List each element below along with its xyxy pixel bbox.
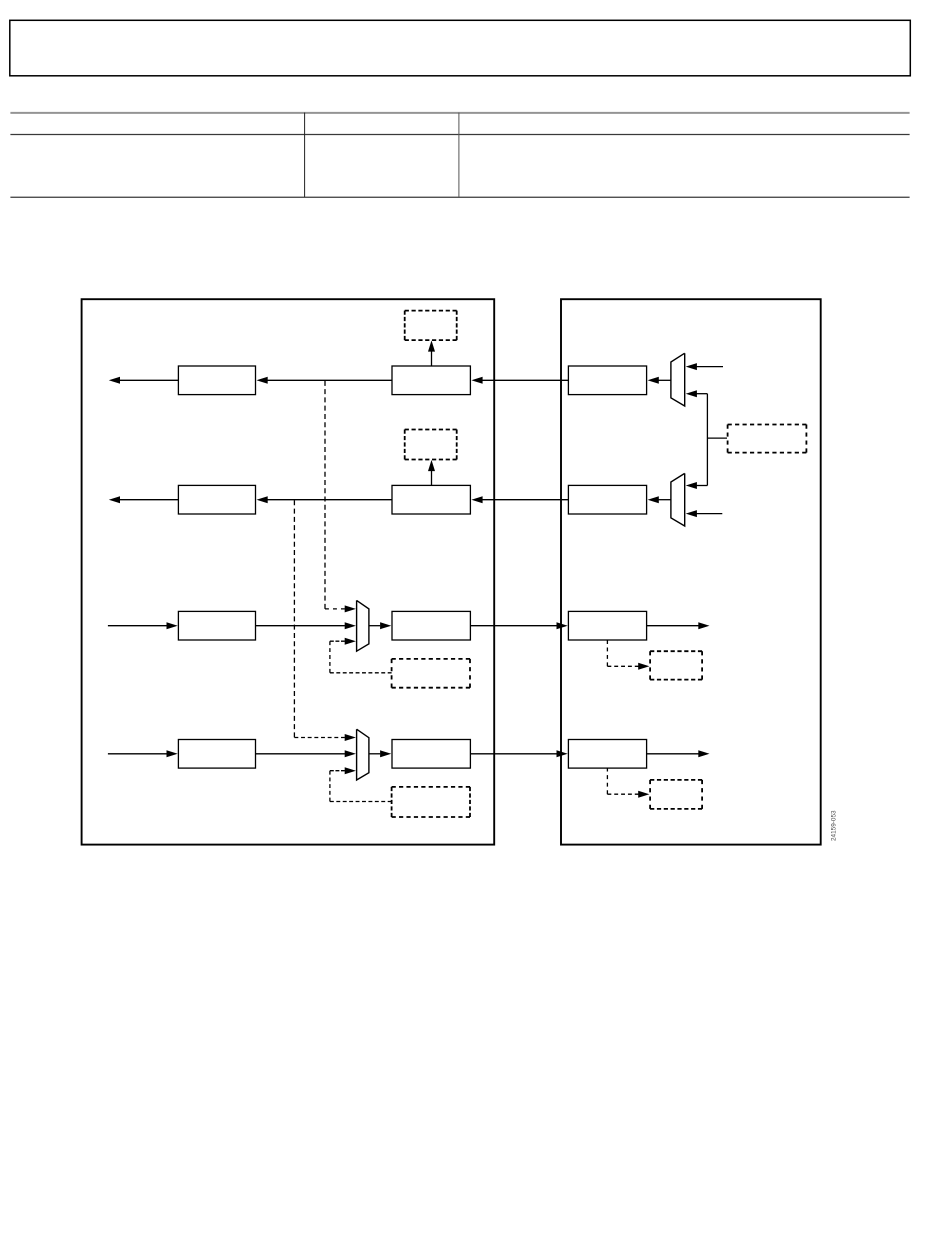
dashed block DB1 above B1 [405,310,457,312]
dashed block DB2 above B2 [405,429,457,431]
block A1 (left section, row 1, output stage) [178,366,255,395]
dashed wire: C4 down to DB7 [606,768,608,795]
wire: row 2 output stub, arrow exits left [120,499,179,501]
table header separator rule [10,134,909,136]
dashed block DB6 (right section, row 3) [650,650,702,652]
wire: B2 to A2 [267,499,392,501]
wire: row 3 input stub, arrow into A3 [108,625,167,627]
mux M2 (right section, row 2) [671,473,685,526]
wire: into mux M1 bottom input [696,393,708,395]
table bottom rule [10,196,909,198]
wire: mux M3 output to B3 [369,625,380,627]
block B4 (left section, row 4) [392,740,470,769]
wire: mux M2 bottom input stub [696,513,722,515]
wire: right section row 2 into B2 [481,499,568,501]
dashed block DB3 below-right of mux M3 [392,658,470,660]
block A3 (left section, row 3, input stage) [178,611,255,640]
block A2 (left section, row 2, output stage) [178,485,255,514]
wire: C3 output arrow [647,625,699,627]
wire: row 1 output stub, arrow exits left [120,379,179,381]
table top rule [10,112,909,114]
wire: B1 to A1 [267,379,392,381]
dashed block DB5 (right section, mid) [728,424,807,426]
block C2 (right section, row 2) [568,485,646,514]
right outer block U2 [561,299,821,844]
wire: B2 up to DB2 [431,470,433,485]
mux M1 (right section, row 1) [671,353,685,406]
table column divider 2 [458,113,460,197]
dashed wire: DB4 to mux M4 bottom input [330,801,392,803]
wire: B3 to right section row 3 [470,625,557,627]
wire: into mux M2 top input [696,485,708,487]
table column divider 1 [304,113,306,197]
dashed wire: C3 down to DB6 [606,640,608,666]
wire: mux M1 top input stub [696,366,723,368]
block B2 (left section, row 2) [392,485,470,514]
wire: mux M4 output to B4 [369,753,380,755]
wire: row 4 input stub, arrow into A4 [108,753,167,755]
svg-text:24159-053: 24159-053 [830,810,837,841]
block A4 (left section, row 4, input stage) [178,740,255,769]
dashed wire: row 2 net down to mux M4 top input [293,500,295,737]
wire: vertical bus M1 to M2 [706,394,708,486]
wire: B4 to right section row 4 [470,753,557,755]
mux M4 (left section, row 4) [357,729,369,780]
dashed wire: DB3 to mux M3 bottom input [330,672,392,674]
wire: mux M2 output to C2 [657,499,671,501]
block C3 (right section, row 3) [568,611,646,640]
dashed wire: row 1 net down to mux M3 top input [324,381,326,609]
wire: B1 up to DB1 [431,351,433,366]
wire: right section row 1 into B1 [481,379,568,381]
wire: mux M1 output to C1 [657,379,671,381]
wire: stub from bus to dashed block DB5 [707,437,727,439]
wire: A3 to mux M3 [256,625,345,627]
dashed block DB7 (right section, row 4) [650,779,702,781]
mux M3 (left section, row 3) [357,600,369,651]
dashed block DB4 below-right of mux M4 [392,786,470,788]
wire: A4 to mux M4 [256,753,345,755]
left outer block U1 [82,299,495,844]
block B3 (left section, row 3) [392,611,470,640]
block B1 (left section, row 1) [392,366,470,395]
header box [10,20,911,76]
block C1 (right section, row 1) [568,366,646,395]
block C4 (right section, row 4) [568,740,646,769]
wire: C4 output arrow [647,753,699,755]
